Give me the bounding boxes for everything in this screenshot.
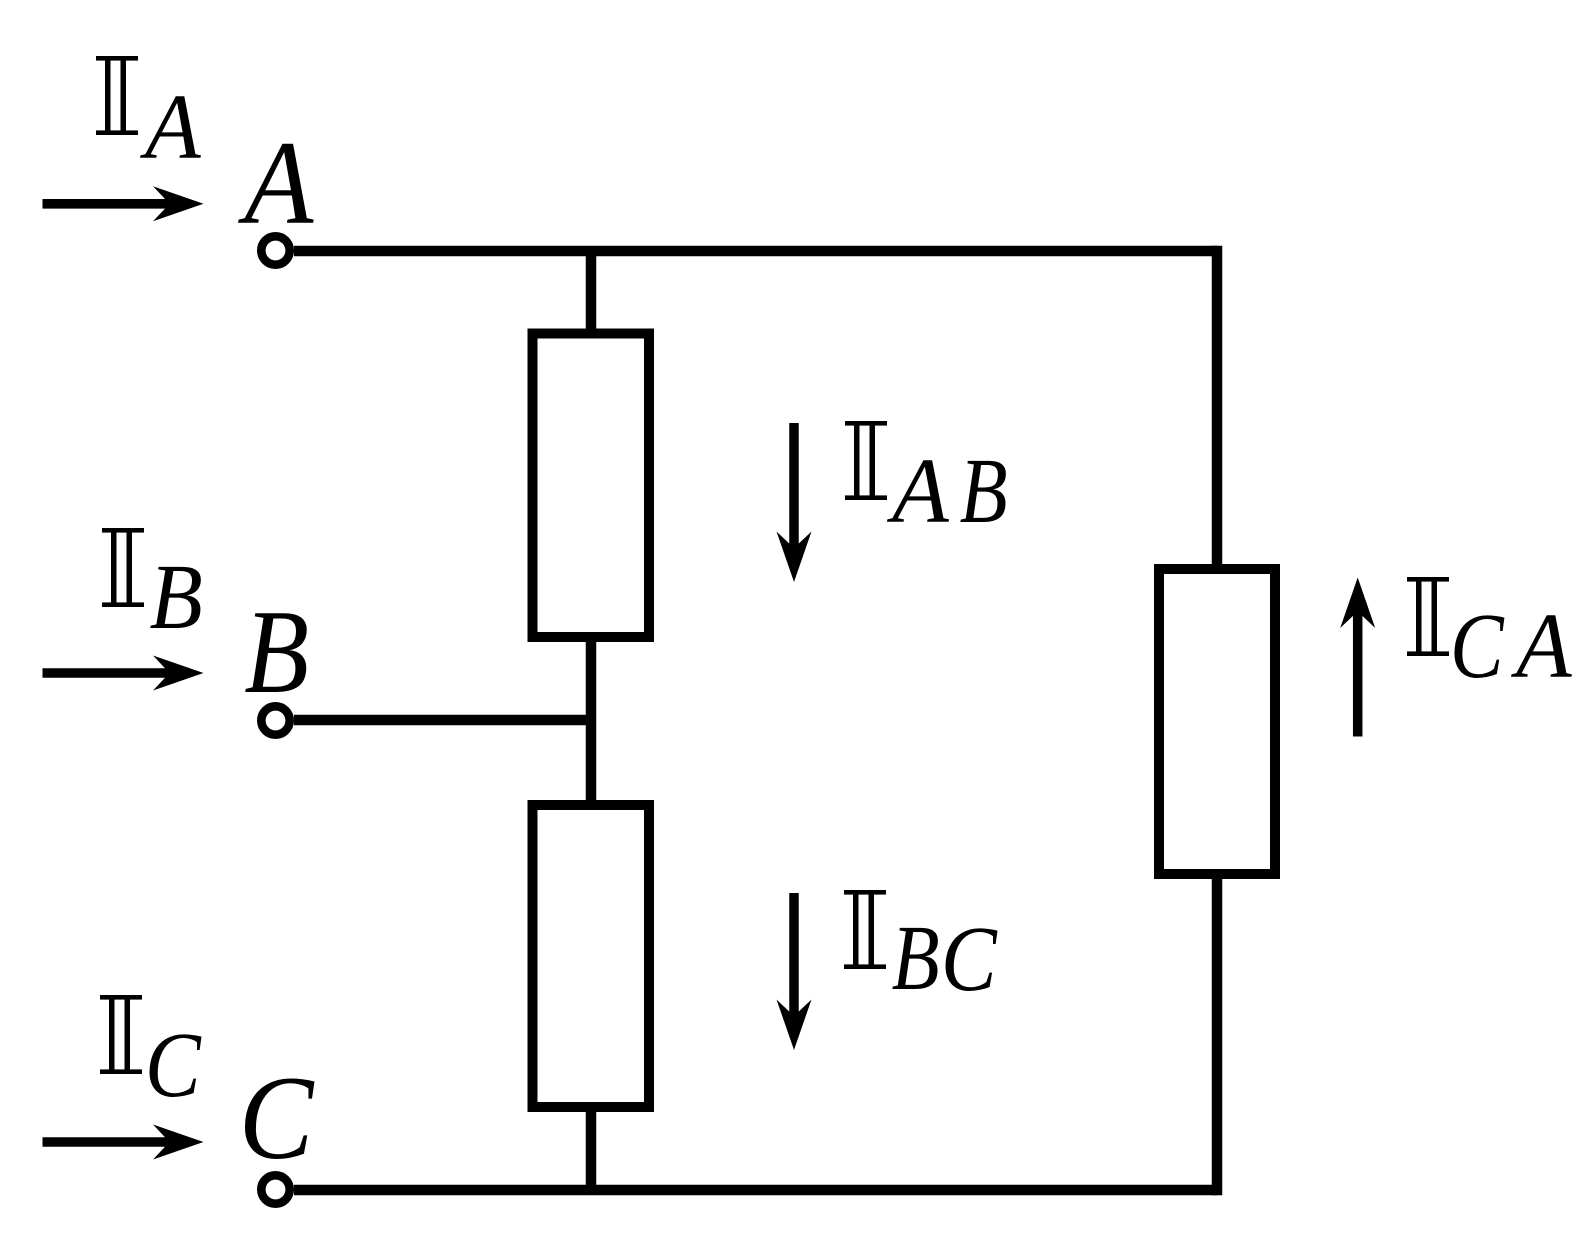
svg-text:B: B <box>244 585 309 718</box>
current label I_CA : blackboard-bold I <box>1407 577 1449 656</box>
arrow for current I_AB (down, head) <box>777 532 812 583</box>
wire: middle vertical between resistor AB and resistor BC (node B junction) <box>586 630 597 812</box>
terminal A (open circle) <box>261 236 289 264</box>
arrow for current I_C (shaft) <box>43 1137 171 1147</box>
current label I_BC : blackboard-bold I <box>844 890 886 969</box>
arrow for current I_CA (up, shaft) <box>1353 609 1363 737</box>
arrow for current I_BC (down, shaft) <box>789 893 799 1018</box>
arrow for current I_BC (down, head) <box>777 1000 812 1051</box>
current label I_B : blackboard-bold I <box>102 528 144 607</box>
svg-text:A: A <box>886 440 950 543</box>
resistor Z_AB (box between node A and node B) <box>533 334 650 638</box>
arrow for current I_CA (up, head) <box>1340 578 1375 629</box>
svg-text:C: C <box>1450 595 1505 698</box>
svg-text:C: C <box>941 908 998 1011</box>
arrow for current I_A (shaft) <box>43 199 171 209</box>
svg-text:B: B <box>960 439 1008 543</box>
svg-text:B: B <box>150 545 203 648</box>
svg-text:C: C <box>239 1053 315 1185</box>
wire: junction stub from node A down to resistor AB <box>586 251 597 345</box>
current label I_AB : blackboard-bold I <box>845 421 887 500</box>
current label I_A : blackboard-bold I <box>96 56 138 135</box>
svg-text:C: C <box>145 1014 202 1117</box>
svg-text:B: B <box>892 906 940 1010</box>
wire: right vertical from top corner down to resistor CA <box>1212 246 1223 569</box>
terminal B (open circle) <box>261 706 289 734</box>
svg-text:A: A <box>139 75 201 178</box>
arrow for current I_B (head) <box>153 656 204 691</box>
arrow for current I_A (head) <box>153 186 204 221</box>
arrow for current I_AB (down, shaft) <box>789 423 799 550</box>
wire: stub from resistor BC down to bottom bus <box>586 1100 597 1190</box>
svg-text:A: A <box>1510 594 1572 697</box>
arrow for current I_B (shaft) <box>43 668 171 678</box>
svg-text:A: A <box>238 117 315 250</box>
resistor Z_CA (box on right branch) <box>1159 569 1275 874</box>
wire: bottom bus from terminal C to bottom-right corner <box>294 1185 1217 1196</box>
resistor Z_BC (box between node B and node C) <box>533 805 650 1107</box>
terminal C (open circle) <box>261 1175 289 1203</box>
wire: top bus from terminal A to top-right corner <box>294 246 1217 257</box>
arrow for current I_C (head) <box>153 1125 204 1160</box>
wire: right vertical from resistor CA down to bottom corner <box>1212 874 1223 1195</box>
current label I_C : blackboard-bold I <box>100 995 142 1074</box>
wire: from terminal B to middle junction <box>294 715 596 726</box>
